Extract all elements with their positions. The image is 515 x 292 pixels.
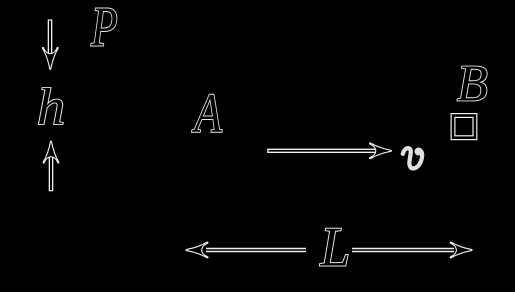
arrow down (above h): [43, 19, 58, 68]
block at B (small square): [453, 116, 475, 138]
svg-text:B: B: [457, 55, 488, 113]
velocity arrow (points right): [267, 144, 391, 159]
arrow up (below h): [44, 142, 59, 192]
label v: [403, 148, 422, 168]
dimension line L (double-headed arrow): [187, 243, 472, 258]
svg-text:h: h: [37, 78, 65, 136]
svg-text:A: A: [192, 82, 223, 144]
svg-text:L: L: [320, 215, 351, 278]
svg-text:P: P: [90, 0, 117, 58]
